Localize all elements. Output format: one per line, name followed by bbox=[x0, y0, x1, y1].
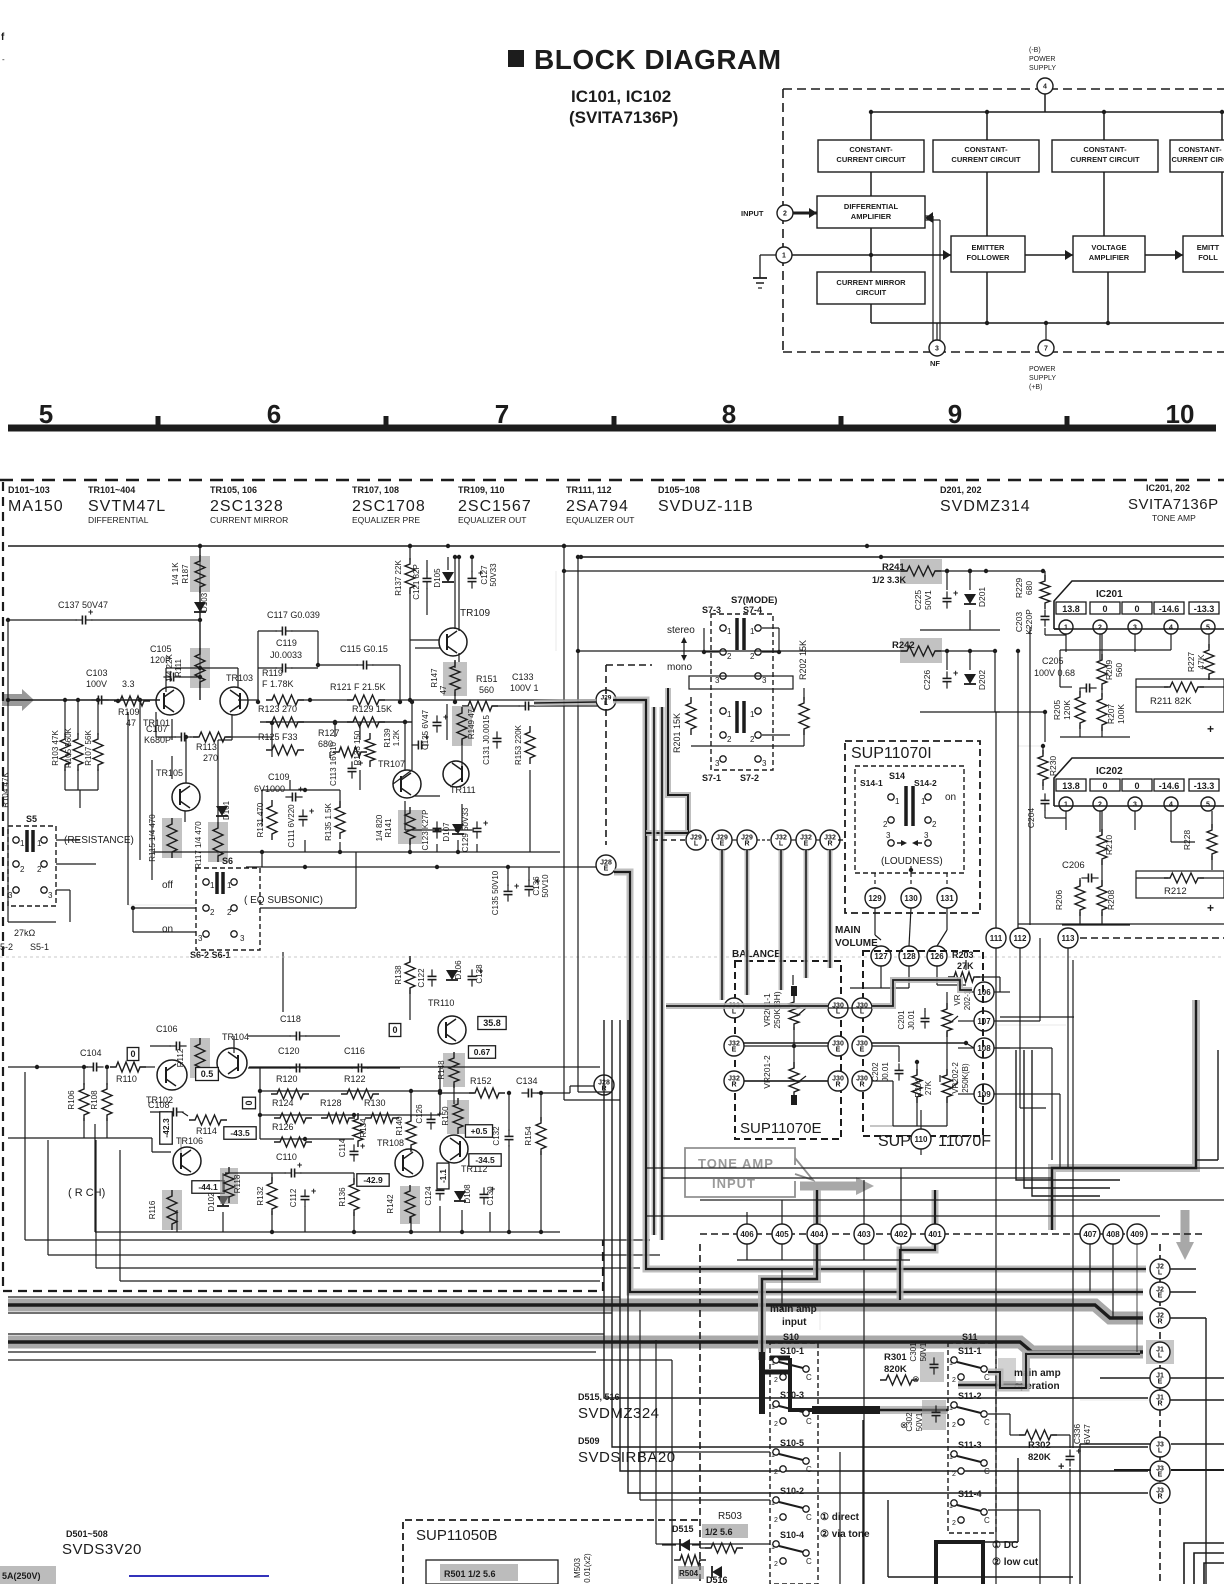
svg-text:C103: C103 bbox=[86, 668, 108, 678]
connector 107 bbox=[974, 1011, 994, 1031]
svg-text:R139: R139 bbox=[383, 728, 392, 748]
svg-text:L: L bbox=[779, 841, 784, 848]
label direct bbox=[820, 1512, 870, 1540]
svg-text:(SVITA7136P): (SVITA7136P) bbox=[569, 108, 678, 127]
resistor R114 bbox=[182, 1112, 227, 1136]
svg-text:C133: C133 bbox=[512, 672, 534, 682]
wire long horiz 1 bbox=[646, 1167, 1224, 1169]
svg-text:SUP11070E: SUP11070E bbox=[740, 1120, 821, 1137]
svg-text:S10-4: S10-4 bbox=[780, 1530, 804, 1540]
wire S6 net bbox=[131, 852, 356, 1012]
svg-text:+: + bbox=[1207, 901, 1214, 915]
resistor R187 bbox=[171, 555, 210, 593]
wire long horiz 2 bbox=[662, 1177, 1052, 1179]
svg-text:C110: C110 bbox=[276, 1152, 297, 1162]
wire emitter follower to voltage amp bbox=[1025, 250, 1073, 260]
ruler tick bbox=[384, 416, 389, 425]
svg-text:R107 56K: R107 56K bbox=[84, 730, 93, 766]
schematic top dashed border bbox=[0, 479, 1224, 482]
IC202 pin 4 bbox=[1164, 797, 1178, 811]
svg-text:TR108: TR108 bbox=[377, 1138, 404, 1148]
svg-text:+: + bbox=[1207, 722, 1214, 736]
label R104 bbox=[1, 772, 10, 808]
capacitor C130 bbox=[480, 1184, 496, 1206]
capacitor C111 bbox=[287, 804, 314, 848]
svg-text:1: 1 bbox=[771, 1360, 775, 1367]
resistor R204 bbox=[912, 1060, 933, 1126]
svg-text:CONSTANT-: CONSTANT- bbox=[1178, 145, 1222, 154]
left dashed border bbox=[2, 482, 4, 1289]
switch S11-2 bbox=[949, 1391, 990, 1429]
svg-text:2: 2 bbox=[1098, 625, 1102, 632]
resistor R148 bbox=[437, 1052, 465, 1104]
svg-text:R128: R128 bbox=[320, 1098, 342, 1108]
svg-text:2: 2 bbox=[774, 1561, 778, 1568]
svg-text:IC201, 202: IC201, 202 bbox=[1146, 483, 1190, 493]
svg-text:2: 2 bbox=[952, 1377, 956, 1384]
resistor R116 bbox=[148, 1190, 182, 1230]
capacitor C121 bbox=[412, 560, 432, 615]
resistor R210 bbox=[1097, 811, 1114, 865]
wire upper block bottom rail bbox=[153, 770, 605, 869]
svg-text:R151: R151 bbox=[476, 674, 498, 684]
diode D107 bbox=[442, 822, 464, 842]
svg-text:J0.01: J0.01 bbox=[907, 1010, 916, 1030]
svg-text:POWER: POWER bbox=[1029, 366, 1055, 373]
svg-text:R135 1.5K: R135 1.5K bbox=[324, 802, 333, 840]
dashed J29 row bbox=[653, 839, 845, 841]
svg-text:27kΩ: 27kΩ bbox=[14, 928, 36, 938]
diode D103 bbox=[194, 592, 209, 612]
ruler number 5 bbox=[39, 399, 53, 429]
svg-text:112: 112 bbox=[1014, 934, 1027, 943]
svg-text:off: off bbox=[162, 880, 173, 891]
value -1.1 bbox=[437, 1163, 449, 1189]
svg-text:560: 560 bbox=[479, 685, 494, 695]
switch S10-3 bbox=[771, 1390, 812, 1428]
resistor R124 bbox=[272, 1098, 312, 1123]
svg-text:SUP: SUP bbox=[878, 1133, 911, 1150]
IC202 value 1 bbox=[1056, 779, 1086, 791]
IC202 value 3 bbox=[1122, 779, 1152, 791]
svg-text:R141: R141 bbox=[384, 818, 393, 838]
svg-text:1.2K: 1.2K bbox=[392, 729, 401, 746]
resistor R120 bbox=[271, 1074, 309, 1099]
label D501-508 bbox=[62, 1529, 142, 1558]
svg-text:R122: R122 bbox=[344, 1074, 366, 1084]
svg-text:S7-1: S7-1 bbox=[702, 773, 721, 783]
pin 4 bbox=[1037, 78, 1053, 94]
svg-text:C135 50V10: C135 50V10 bbox=[491, 870, 500, 915]
wire right edge vertical bbox=[1196, 1050, 1218, 1160]
svg-text:R132: R132 bbox=[256, 1186, 265, 1206]
IC201 value 1 bbox=[1056, 602, 1086, 614]
svg-text:+: + bbox=[311, 1186, 316, 1196]
svg-text:2: 2 bbox=[727, 735, 732, 744]
svg-text:R: R bbox=[744, 841, 749, 848]
resistor R133 bbox=[353, 730, 375, 767]
svg-text:R108: R108 bbox=[90, 1090, 99, 1110]
value 0.5 bbox=[196, 1068, 219, 1081]
connector 108 bbox=[974, 1038, 994, 1058]
connector J30R pair bbox=[828, 1071, 872, 1091]
bus J30L to 106 bbox=[872, 980, 972, 1006]
label 27k bbox=[8, 922, 56, 938]
svg-text:0: 0 bbox=[244, 1100, 254, 1105]
resistor R201 bbox=[672, 697, 696, 753]
label VR202-2 bbox=[942, 1032, 970, 1126]
block diagram dashed border bbox=[783, 89, 1224, 352]
wire 106 net bbox=[921, 960, 1010, 1129]
svg-text:50V10: 50V10 bbox=[541, 874, 550, 898]
connector J3E bbox=[1150, 1461, 1170, 1481]
svg-text:R302: R302 bbox=[1028, 1440, 1051, 1451]
svg-text:R: R bbox=[1157, 1319, 1162, 1326]
resistor R206 bbox=[1054, 878, 1085, 925]
resistor R147 bbox=[430, 660, 467, 704]
svg-text:120P: 120P bbox=[150, 655, 171, 665]
svg-text:⊗: ⊗ bbox=[900, 1420, 908, 1430]
resistor R241 bbox=[872, 559, 942, 585]
svg-text:D515: D515 bbox=[672, 1524, 694, 1534]
wire 40x drops bbox=[737, 1168, 910, 1260]
svg-text:50V1: 50V1 bbox=[919, 1342, 928, 1361]
capacitor C105 bbox=[150, 644, 202, 682]
svg-text:S7-4: S7-4 bbox=[743, 605, 762, 615]
connector 127 bbox=[871, 946, 891, 966]
svg-text:2: 2 bbox=[727, 652, 732, 661]
svg-text:R133 150: R133 150 bbox=[353, 730, 362, 765]
capacitor C124 bbox=[424, 1183, 445, 1205]
connector 106 bbox=[974, 982, 994, 1002]
wire R230 col bbox=[995, 710, 1047, 742]
svg-text:1/2 3.3K: 1/2 3.3K bbox=[872, 575, 907, 585]
svg-text:+: + bbox=[309, 806, 314, 816]
wire left tone verticals ext bbox=[564, 846, 620, 1100]
ruler tick bbox=[839, 416, 844, 425]
svg-text:108: 108 bbox=[977, 1044, 991, 1053]
svg-text:R142: R142 bbox=[386, 1194, 395, 1214]
switch S10-2 bbox=[771, 1486, 812, 1524]
svg-text:D201: D201 bbox=[977, 587, 987, 608]
diode D105 bbox=[433, 557, 454, 588]
bus tone input descent bbox=[762, 1190, 817, 1360]
svg-text:C226: C226 bbox=[922, 670, 932, 691]
wire nested L2 bbox=[612, 1020, 1148, 1447]
svg-text:SVTM47L: SVTM47L bbox=[88, 498, 166, 515]
svg-text:270: 270 bbox=[203, 753, 218, 763]
svg-text:R: R bbox=[835, 1082, 840, 1089]
wire J32R row bbox=[744, 1081, 947, 1126]
wire nested L5 bbox=[652, 707, 657, 1235]
capacitor C113 bbox=[329, 742, 363, 786]
svg-text:+: + bbox=[1058, 1461, 1064, 1473]
IC202 value 4 bbox=[1154, 779, 1184, 791]
svg-text:1: 1 bbox=[771, 1404, 775, 1411]
svg-text:R206: R206 bbox=[1054, 890, 1064, 911]
svg-text:100K: 100K bbox=[1116, 704, 1126, 724]
svg-text:E: E bbox=[604, 866, 609, 873]
svg-text:R124: R124 bbox=[272, 1098, 294, 1108]
svg-text:+: + bbox=[297, 1160, 302, 1170]
value +0.5 bbox=[465, 1125, 492, 1138]
svg-text:-42.9: -42.9 bbox=[363, 1175, 383, 1185]
connector J32E-bal bbox=[724, 1036, 744, 1056]
bottom rail bbox=[871, 322, 1224, 324]
capacitor C206 bbox=[1062, 860, 1099, 883]
label S14-1 S14-2 bbox=[860, 778, 937, 788]
bottom dashed border bbox=[3, 1240, 603, 1291]
wire eq mesh bbox=[238, 698, 600, 724]
svg-text:C205: C205 bbox=[1042, 656, 1064, 666]
svg-text:R125 F33: R125 F33 bbox=[258, 732, 298, 742]
resistor R137 bbox=[394, 544, 415, 640]
label S7-3 S7-4 bbox=[702, 605, 762, 615]
resistor R125 bbox=[258, 732, 304, 755]
svg-text:R301: R301 bbox=[884, 1352, 907, 1363]
svg-text:1: 1 bbox=[771, 1544, 775, 1551]
svg-text:R110: R110 bbox=[116, 1074, 137, 1084]
svg-text:-13.3: -13.3 bbox=[1194, 604, 1215, 614]
svg-text:E: E bbox=[860, 1047, 865, 1054]
svg-text:680: 680 bbox=[1024, 581, 1034, 595]
wire C336 column bbox=[1072, 960, 1074, 1448]
svg-text:1: 1 bbox=[210, 881, 215, 890]
svg-text:E: E bbox=[720, 841, 725, 848]
svg-text:1: 1 bbox=[949, 1360, 953, 1367]
svg-text:K220P: K220P bbox=[1024, 609, 1034, 635]
svg-text:403: 403 bbox=[857, 1230, 871, 1239]
svg-text:2: 2 bbox=[210, 908, 215, 917]
bus S10 to S11 bbox=[880, 1352, 1026, 1410]
connector J29L row bbox=[686, 830, 706, 850]
wire R241 feed bbox=[562, 569, 1045, 573]
resistor R135 bbox=[324, 801, 345, 841]
svg-text:CONSTANT-: CONSTANT- bbox=[1083, 145, 1127, 154]
svg-text:VR201-1: VR201-1 bbox=[762, 993, 772, 1027]
svg-text:100V: 100V bbox=[86, 679, 107, 689]
svg-text:+: + bbox=[483, 818, 488, 828]
svg-text:R: R bbox=[1157, 1494, 1162, 1501]
connector J29E row bbox=[712, 830, 732, 850]
transistor TR103 bbox=[220, 673, 253, 715]
svg-text:2SC1708: 2SC1708 bbox=[352, 498, 426, 515]
IC202 pin 5 bbox=[1201, 797, 1215, 811]
wire left verticals bbox=[562, 544, 578, 857]
svg-text:50V1: 50V1 bbox=[923, 590, 933, 610]
IC201 pin 2 bbox=[1093, 620, 1107, 634]
label SUP11070F bbox=[878, 1133, 991, 1150]
svg-text:R: R bbox=[731, 1082, 736, 1089]
label VR202-1 bbox=[942, 989, 972, 1037]
capacitor C120 bbox=[248, 1046, 307, 1073]
svg-text:CONSTANT-: CONSTANT- bbox=[964, 145, 1008, 154]
dashed row 401 bbox=[700, 1233, 1205, 1235]
svg-text:D202: D202 bbox=[977, 670, 987, 691]
header SVDUZ-11B bbox=[658, 485, 754, 515]
S14 box bbox=[855, 766, 964, 873]
svg-text:input: input bbox=[782, 1317, 807, 1328]
svg-text:TONE AMP: TONE AMP bbox=[1152, 513, 1196, 523]
switch S10 box bbox=[770, 1332, 818, 1584]
svg-text:130: 130 bbox=[904, 894, 918, 903]
svg-text:5A(250V): 5A(250V) bbox=[2, 1571, 41, 1581]
transistor TR111 bbox=[443, 761, 476, 795]
svg-text:1: 1 bbox=[727, 710, 732, 719]
svg-text:L: L bbox=[836, 1009, 841, 1016]
header SVITA7136P bbox=[1128, 483, 1219, 523]
nf label bbox=[930, 359, 940, 368]
svg-text:C: C bbox=[806, 1417, 812, 1426]
tone amp input sign bbox=[685, 1148, 813, 1197]
wire J32E row bbox=[744, 1041, 974, 1048]
connector J29R row bbox=[737, 830, 757, 850]
svg-text:R154: R154 bbox=[524, 1126, 533, 1146]
wire voltage amp to emitter foll 2 bbox=[1145, 250, 1183, 260]
connector 112 bbox=[1010, 928, 1030, 948]
svg-text:1: 1 bbox=[750, 710, 755, 719]
wire S10 feeders bbox=[640, 1310, 770, 1544]
resistor R242 bbox=[892, 638, 942, 663]
svg-text:EQUALIZER OUT: EQUALIZER OUT bbox=[458, 515, 526, 525]
svg-text:L: L bbox=[860, 1009, 865, 1016]
svg-text:S10-5: S10-5 bbox=[780, 1438, 804, 1448]
svg-text:S11-1: S11-1 bbox=[958, 1346, 982, 1356]
resistor R139 bbox=[383, 728, 429, 750]
capacitor C204 bbox=[1026, 793, 1066, 828]
svg-text:+: + bbox=[953, 588, 958, 598]
svg-text:R211 82K: R211 82K bbox=[1150, 696, 1192, 707]
value 0.67 bbox=[468, 1046, 495, 1059]
svg-text:R117 1/4 470: R117 1/4 470 bbox=[194, 821, 203, 869]
resistor R202 bbox=[798, 640, 809, 746]
svg-text:402: 402 bbox=[894, 1230, 908, 1239]
svg-text:C115 G0.15: C115 G0.15 bbox=[340, 644, 388, 654]
diode D102 bbox=[207, 1173, 229, 1212]
wire to J28R bbox=[537, 1086, 594, 1093]
svg-text:L: L bbox=[732, 1009, 737, 1016]
connector 113 bbox=[1058, 928, 1078, 948]
resistor R503 bbox=[700, 1511, 748, 1553]
connector J30E pair bbox=[828, 1036, 872, 1056]
label D509 bbox=[578, 1436, 676, 1466]
resistor R209 bbox=[1097, 634, 1124, 690]
svg-text:113: 113 bbox=[1062, 934, 1075, 943]
ruler tick bbox=[156, 416, 161, 425]
gray arrow right bbox=[800, 1177, 874, 1195]
svg-text:R242: R242 bbox=[892, 640, 915, 651]
svg-text:3: 3 bbox=[762, 759, 767, 768]
resistor R113 bbox=[190, 721, 274, 763]
label BALANCE bbox=[732, 949, 781, 960]
switch S5 bbox=[8, 814, 56, 906]
svg-text:250K(B): 250K(B) bbox=[961, 1063, 970, 1093]
svg-text:TONE AMP: TONE AMP bbox=[698, 1156, 774, 1171]
capacitor C201 bbox=[897, 1010, 930, 1030]
resistor R109 bbox=[114, 696, 150, 728]
svg-text:(-B): (-B) bbox=[1029, 47, 1041, 54]
svg-text:6V47: 6V47 bbox=[1082, 1424, 1092, 1444]
bus S10 heavy marks bbox=[762, 1352, 880, 1414]
svg-text:0: 0 bbox=[130, 1049, 135, 1059]
svg-text:128: 128 bbox=[902, 952, 916, 961]
resistor R134 bbox=[353, 1113, 368, 1147]
svg-text:VR201-2: VR201-2 bbox=[762, 1055, 772, 1089]
svg-text:C108: C108 bbox=[148, 1100, 170, 1110]
wire mid column bbox=[996, 627, 1224, 930]
svg-text:SVDMZ324: SVDMZ324 bbox=[578, 1405, 660, 1422]
wire right edge nested bbox=[1184, 1543, 1224, 1584]
svg-text:IC201: IC201 bbox=[1096, 589, 1123, 600]
label R CH bbox=[8, 1138, 171, 1199]
svg-text:NF: NF bbox=[930, 359, 940, 368]
svg-text:3.3: 3.3 bbox=[122, 679, 135, 689]
connector J1L bbox=[1146, 1340, 1174, 1364]
svg-text:3: 3 bbox=[715, 676, 720, 685]
connector 110 bbox=[911, 1129, 931, 1149]
svg-text:1: 1 bbox=[782, 253, 786, 260]
svg-text:TR103: TR103 bbox=[226, 673, 253, 683]
differential amplifier block bbox=[817, 196, 925, 228]
svg-text:820K: 820K bbox=[1028, 1452, 1051, 1463]
wire S7 net bbox=[691, 628, 804, 746]
svg-text:R148: R148 bbox=[437, 1060, 446, 1080]
svg-text:BLOCK DIAGRAM: BLOCK DIAGRAM bbox=[534, 44, 782, 75]
resistor R131 bbox=[256, 800, 277, 840]
capacitor C205 bbox=[1034, 656, 1097, 693]
svg-text:2: 2 bbox=[932, 820, 937, 829]
resistor R122 bbox=[341, 1074, 379, 1099]
svg-text:2SC1328: 2SC1328 bbox=[210, 498, 284, 515]
svg-text:2: 2 bbox=[952, 1520, 956, 1527]
resistor R140 bbox=[395, 1091, 416, 1152]
wire 106 feeders bbox=[994, 938, 1060, 1168]
resistor R117 bbox=[194, 821, 228, 869]
svg-text:R201 15K: R201 15K bbox=[672, 713, 682, 753]
svg-text:R210: R210 bbox=[1104, 835, 1114, 856]
value -42.9 bbox=[357, 1174, 389, 1187]
svg-text:4: 4 bbox=[1043, 84, 1047, 91]
wire balance net bbox=[744, 975, 940, 1082]
wire D bottom rail bbox=[920, 630, 1000, 712]
svg-text:FOLLOWER: FOLLOWER bbox=[967, 253, 1010, 262]
ground cap bbox=[753, 255, 776, 288]
header MA150 bbox=[8, 485, 64, 515]
svg-text:2: 2 bbox=[952, 1422, 956, 1429]
bus right column bbox=[1052, 1000, 1196, 1230]
svg-text:401: 401 bbox=[928, 1230, 942, 1239]
svg-text:1: 1 bbox=[1064, 625, 1068, 632]
svg-text:2: 2 bbox=[1098, 802, 1102, 809]
capacitor C225 bbox=[913, 569, 958, 610]
transistor TR109 bbox=[408, 555, 491, 702]
capacitor C110 bbox=[225, 1152, 354, 1178]
svg-text:C122: C122 bbox=[417, 968, 426, 988]
bus main amp operation bbox=[988, 1354, 1140, 1388]
connector J2R bbox=[1150, 1308, 1170, 1328]
diode D101 bbox=[216, 800, 231, 820]
connector 129 bbox=[865, 888, 885, 908]
connector 126 bbox=[927, 946, 947, 966]
svg-text:D103: D103 bbox=[200, 592, 209, 612]
connector J2L bbox=[1150, 1259, 1170, 1279]
junction dots rails bbox=[198, 544, 972, 573]
wire 110 links bbox=[870, 1126, 921, 1155]
pin 3 bbox=[929, 323, 945, 356]
svg-text:109: 109 bbox=[977, 1090, 991, 1099]
label S5-2 S5-1 bbox=[0, 942, 49, 952]
svg-text:+: + bbox=[953, 668, 958, 678]
